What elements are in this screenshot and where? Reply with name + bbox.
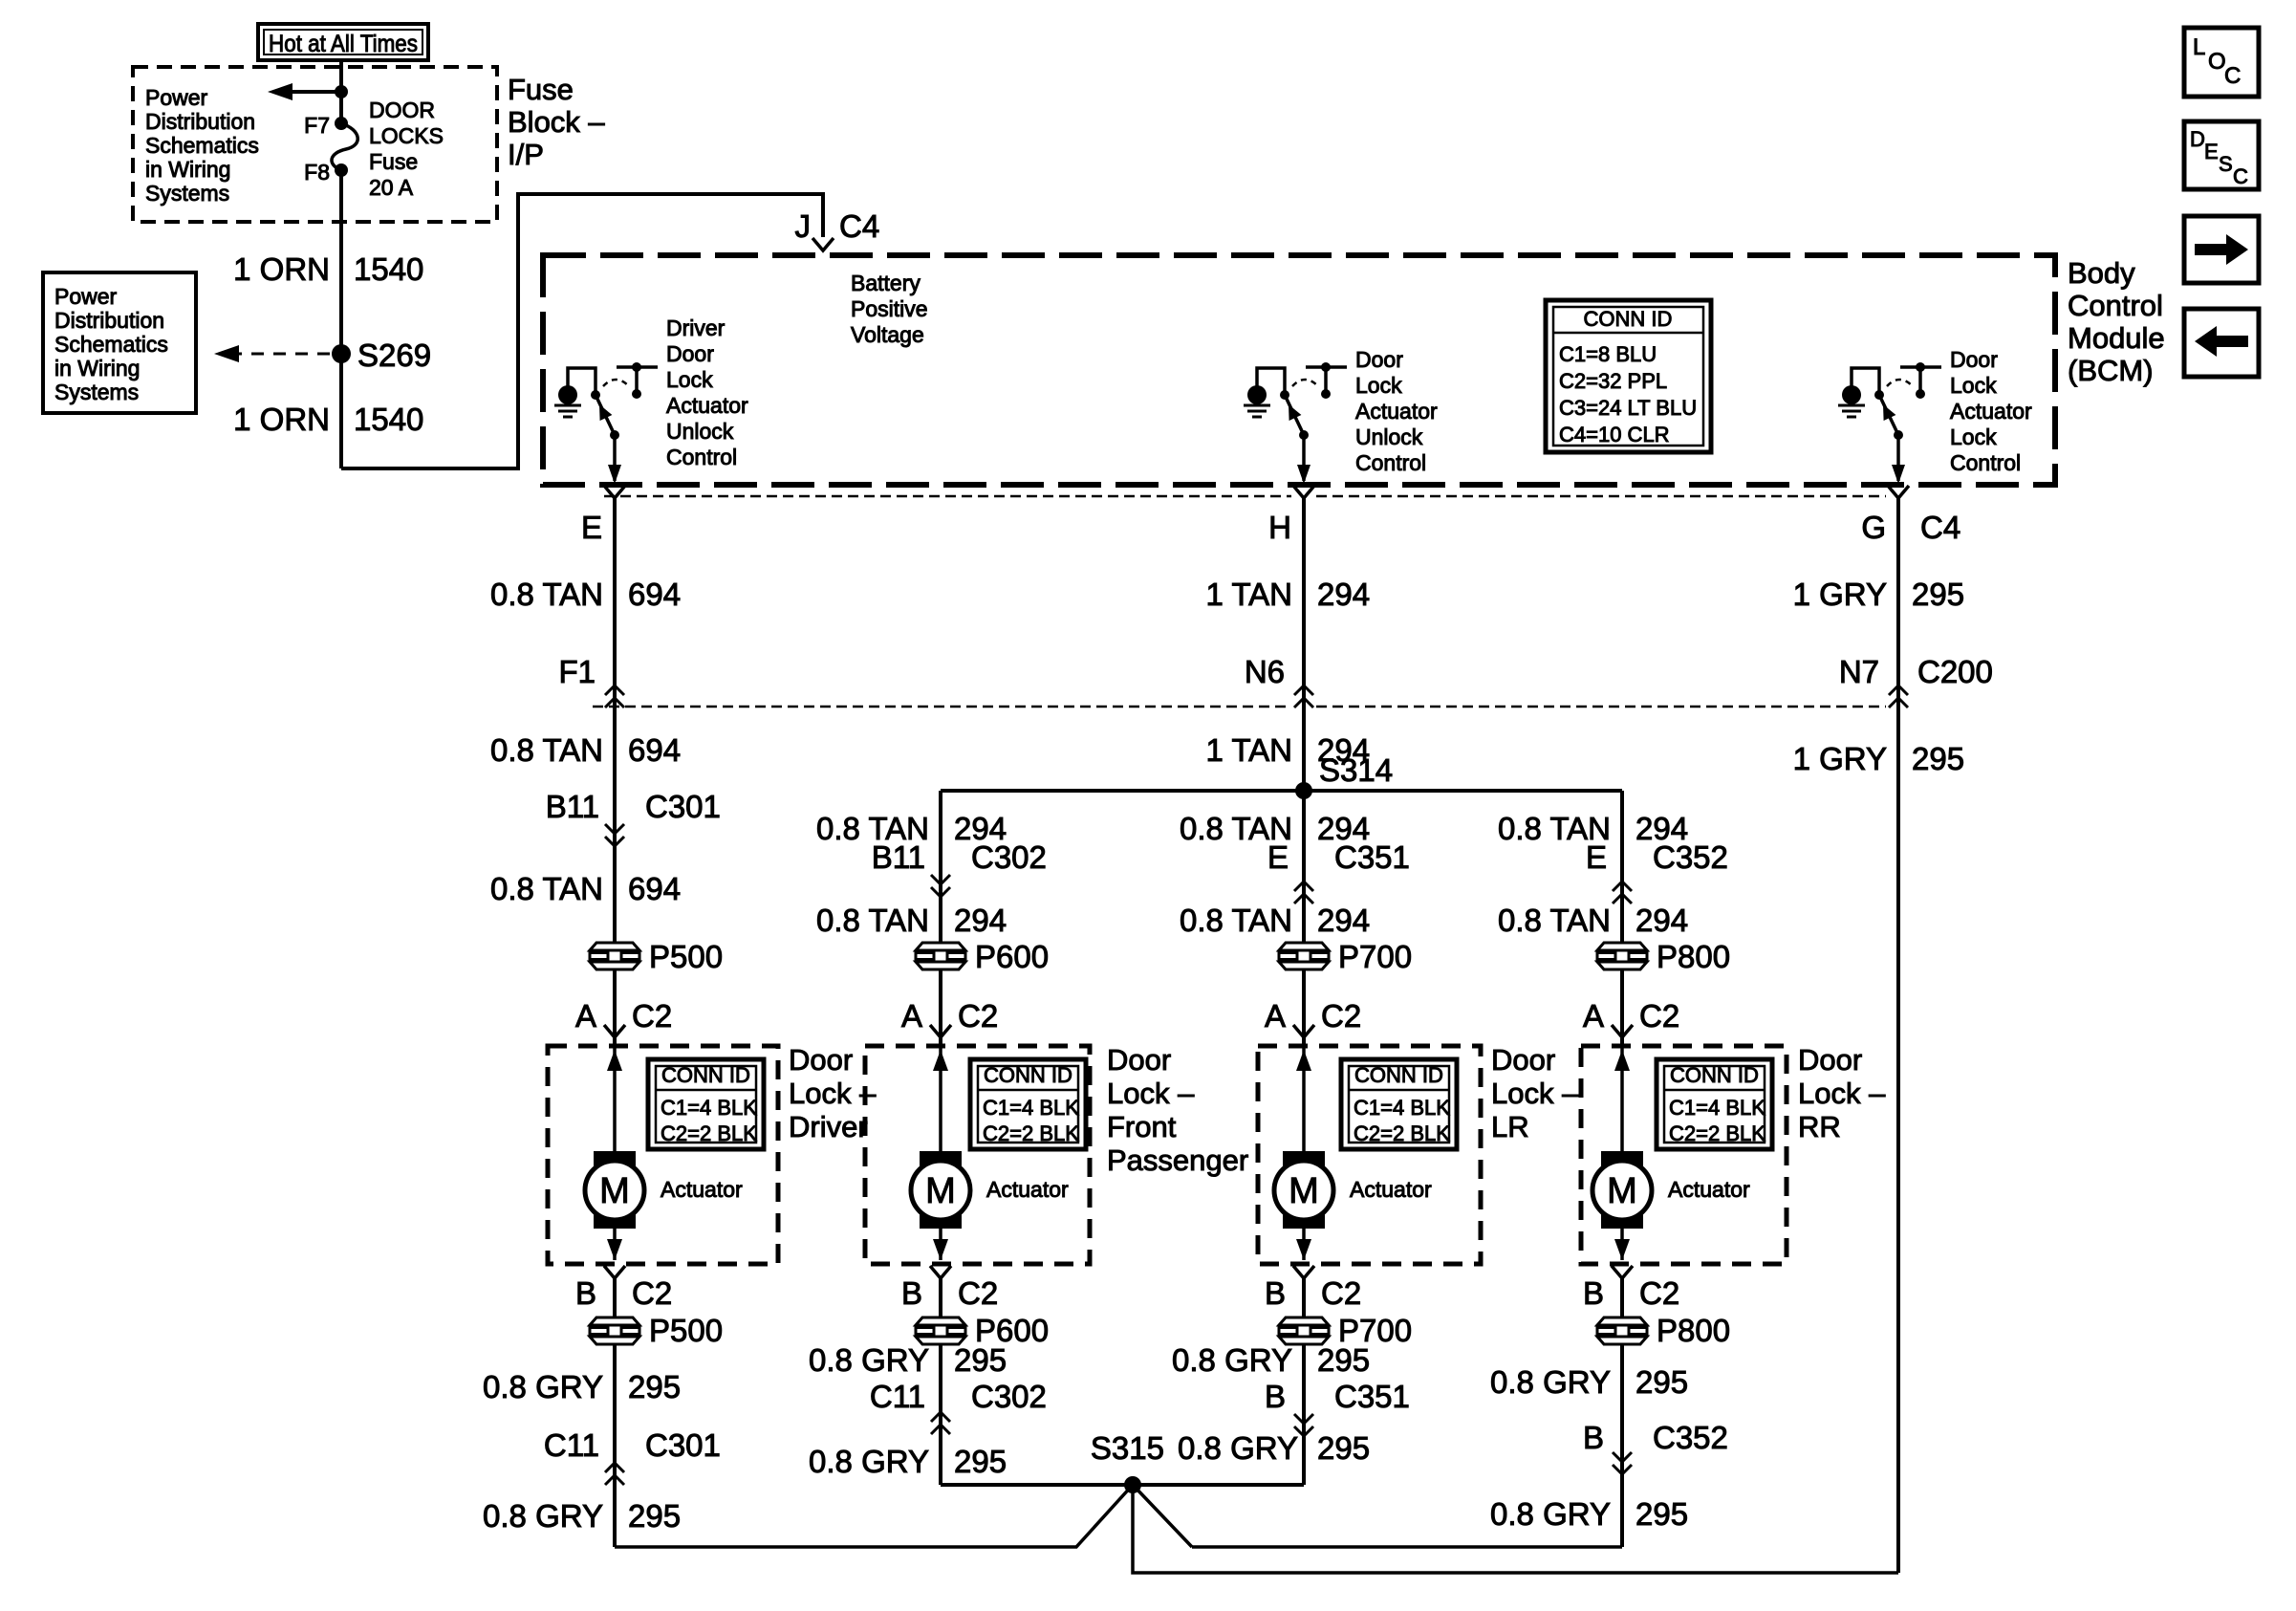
svg-text:Power: Power (54, 284, 118, 309)
svg-text:Passenger: Passenger (1107, 1143, 1248, 1177)
wire out of actuator (613, 1229, 617, 1260)
switch unlock output wire (1302, 435, 1306, 481)
wire into actuator (613, 1046, 617, 1151)
svg-text:C4: C4 (1920, 510, 1960, 545)
pass-through P700 (return) (1278, 1317, 1330, 1345)
svg-text:Lock: Lock (1355, 373, 1402, 398)
svg-text:C352: C352 (1653, 1420, 1728, 1455)
pass-through P700 (1278, 942, 1330, 970)
pass-through P500 (return) (589, 1317, 640, 1345)
svg-text:C2: C2 (1321, 1275, 1361, 1311)
svg-text:Hot at All Times: Hot at All Times (269, 31, 418, 57)
svg-text:C2=32 PPL: C2=32 PPL (1559, 369, 1667, 393)
svg-text:B: B (901, 1275, 922, 1311)
svg-text:C2=2 BLK: C2=2 BLK (661, 1121, 757, 1145)
svg-text:295: 295 (1317, 1430, 1370, 1466)
button back (left arrow) (2184, 309, 2259, 377)
svg-text:C1=8 BLU: C1=8 BLU (1559, 342, 1657, 366)
svg-text:B11: B11 (546, 789, 599, 824)
svg-text:N7: N7 (1839, 654, 1879, 689)
pin G of C4 (1888, 486, 1909, 498)
svg-text:694: 694 (628, 732, 681, 768)
svg-text:Unlock: Unlock (1355, 425, 1423, 449)
button LOC (2184, 28, 2259, 97)
pass-through P800 (return) (1596, 1317, 1648, 1345)
switch unlock fixed contact (1306, 365, 1347, 369)
svg-text:Actuator: Actuator (1350, 1177, 1432, 1202)
splice S269 (332, 344, 351, 363)
svg-text:1 TAN: 1 TAN (1206, 732, 1292, 768)
svg-text:Lock: Lock (1950, 373, 1997, 398)
connector C200 boundary (dashed) (593, 706, 1291, 708)
svg-text:H: H (1268, 510, 1291, 545)
wire: BCM H to S314 and LR door (1302, 498, 1306, 1045)
svg-text:J: J (795, 208, 812, 244)
svg-text:I/P: I/P (508, 138, 544, 171)
svg-text:C4: C4 (839, 208, 879, 244)
pass-through P800 (1596, 942, 1648, 970)
svg-text:A: A (1583, 998, 1604, 1034)
svg-text:1540: 1540 (354, 251, 423, 287)
svg-text:C2: C2 (958, 998, 998, 1034)
motor M actuator front passenger (920, 1151, 962, 1229)
svg-text:in Wiring: in Wiring (145, 157, 230, 182)
wire: branch to front passenger door (939, 791, 942, 1045)
svg-text:1 GRY: 1 GRY (1793, 741, 1887, 776)
switch unlock movable arm (1285, 395, 1304, 435)
svg-text:694: 694 (628, 871, 681, 906)
svg-text:Door: Door (1107, 1043, 1171, 1077)
wire: driver door return (613, 1278, 617, 1547)
switch lock movable arm (1879, 395, 1898, 435)
svg-text:294: 294 (954, 903, 1007, 938)
switch driver unlock wire ground to pivot (568, 368, 596, 391)
svg-text:294: 294 (1317, 577, 1370, 612)
svg-text:Power: Power (145, 85, 208, 110)
button DESC (2184, 121, 2259, 189)
svg-text:1 TAN: 1 TAN (1206, 577, 1292, 612)
svg-text:Lock: Lock (1950, 425, 1997, 449)
svg-text:C351: C351 (1334, 1379, 1410, 1414)
svg-text:295: 295 (628, 1498, 681, 1534)
switch lock fixed contact (1900, 365, 1941, 369)
svg-text:B: B (1583, 1420, 1604, 1455)
svg-text:0.8 TAN: 0.8 TAN (1180, 903, 1292, 938)
svg-text:Distribution: Distribution (54, 308, 164, 333)
svg-text:M: M (599, 1171, 630, 1211)
svg-text:G: G (1861, 510, 1886, 545)
svg-text:294: 294 (1317, 903, 1370, 938)
svg-text:0.8 GRY: 0.8 GRY (1178, 1430, 1298, 1466)
svg-text:0.8 GRY: 0.8 GRY (1490, 1364, 1611, 1400)
svg-text:295: 295 (1912, 741, 1964, 776)
svg-text:CONN ID: CONN ID (1584, 307, 1673, 331)
svg-text:B: B (1583, 1275, 1604, 1311)
svg-text:C301: C301 (645, 789, 721, 824)
wire: RR return to S315 (1133, 1485, 1192, 1547)
svg-text:P600: P600 (975, 939, 1049, 974)
svg-text:B: B (1265, 1379, 1286, 1414)
svg-text:Door: Door (789, 1043, 853, 1077)
svg-text:C2: C2 (1321, 998, 1361, 1034)
svg-text:P700: P700 (1338, 939, 1412, 974)
switch driver unlock output wire (613, 435, 617, 481)
switch driver unlock ground (558, 385, 577, 404)
svg-text:Control: Control (1355, 450, 1426, 475)
svg-text:694: 694 (628, 577, 681, 612)
svg-text:Fuse: Fuse (508, 73, 574, 106)
switch driver unlock travel arc (603, 380, 629, 386)
svg-text:20 A: 20 A (369, 175, 414, 200)
svg-text:Schematics: Schematics (145, 133, 259, 158)
CONN ID table LR (1341, 1059, 1457, 1149)
svg-text:Actuator: Actuator (1355, 399, 1438, 424)
splice S315 bus (941, 1483, 1304, 1487)
wire: RR door return (1620, 1278, 1624, 1547)
svg-text:C2=2 BLK: C2=2 BLK (1354, 1121, 1450, 1145)
svg-text:C1=4 BLK: C1=4 BLK (1669, 1096, 1765, 1120)
svg-text:Control: Control (2068, 289, 2163, 322)
motor M actuator driver (594, 1151, 636, 1229)
CONN ID table front passenger (970, 1059, 1086, 1149)
switch lock travel arc (1887, 380, 1913, 386)
svg-text:C11: C11 (870, 1379, 925, 1414)
door lock actuator box LR (1258, 1046, 1481, 1264)
svg-text:Block –: Block – (508, 105, 605, 139)
svg-text:C351: C351 (1334, 839, 1410, 875)
switch unlock wire ground to pivot (1257, 368, 1285, 391)
svg-text:E: E (1267, 839, 1289, 875)
svg-text:0.8 TAN: 0.8 TAN (490, 577, 603, 612)
svg-text:Positive: Positive (851, 296, 928, 321)
pin B / connector C2 (1612, 1266, 1633, 1278)
svg-text:Control: Control (1950, 450, 2021, 475)
svg-text:O: O (2208, 49, 2226, 75)
svg-text:Actuator: Actuator (986, 1177, 1069, 1202)
svg-text:C2: C2 (632, 998, 672, 1034)
svg-text:Body: Body (2068, 256, 2135, 290)
svg-text:C11: C11 (544, 1427, 599, 1463)
svg-text:F1: F1 (558, 654, 596, 689)
motor M actuator LR (1283, 1151, 1325, 1229)
svg-text:295: 295 (1635, 1364, 1688, 1400)
button next (right arrow) (2184, 216, 2259, 283)
svg-text:294: 294 (1317, 732, 1370, 768)
svg-text:Driver: Driver (666, 316, 726, 340)
door lock actuator box front passenger (865, 1046, 1090, 1264)
svg-text:Lock –: Lock – (1798, 1077, 1886, 1110)
splice S314 and branch bus (941, 789, 1622, 793)
svg-text:Actuator: Actuator (661, 1177, 743, 1202)
wire into actuator (939, 1046, 942, 1151)
wire: S314 branch to RR door (1620, 791, 1624, 1045)
svg-text:S269: S269 (357, 337, 431, 373)
svg-text:F7: F7 (304, 113, 330, 138)
svg-text:Door: Door (1798, 1043, 1862, 1077)
motor M actuator RR (1601, 1151, 1643, 1229)
BCM CONN ID table (1546, 300, 1711, 452)
svg-text:Voltage: Voltage (851, 322, 924, 347)
svg-text:C: C (2233, 164, 2248, 188)
wire out of actuator (1302, 1229, 1306, 1260)
svg-text:C2=2 BLK: C2=2 BLK (1669, 1121, 1765, 1145)
svg-text:C2: C2 (632, 1275, 672, 1311)
svg-text:A: A (1265, 998, 1286, 1034)
svg-text:C200: C200 (1917, 654, 1993, 689)
svg-text:Actuator: Actuator (666, 393, 748, 418)
svg-text:1 ORN: 1 ORN (233, 402, 330, 437)
svg-text:Lock –: Lock – (1107, 1077, 1195, 1110)
svg-text:Distribution: Distribution (145, 109, 255, 134)
svg-text:S: S (2219, 152, 2233, 176)
pin B / connector C2 (930, 1266, 951, 1278)
svg-text:0.8 GRY: 0.8 GRY (483, 1498, 603, 1534)
pass-through P600 (return) (915, 1317, 966, 1345)
svg-text:0.8 TAN: 0.8 TAN (1498, 903, 1611, 938)
svg-text:295: 295 (1912, 577, 1964, 612)
svg-text:C: C (2224, 63, 2241, 89)
svg-text:1 GRY: 1 GRY (1793, 577, 1887, 612)
svg-text:0.8 GRY: 0.8 GRY (809, 1342, 929, 1378)
svg-text:RR: RR (1798, 1110, 1841, 1143)
reference box: Power Distribution Schematics in Wiring Systems (43, 272, 196, 413)
Fuse Block - I/P dashed box (133, 67, 497, 222)
svg-text:Control: Control (666, 445, 737, 469)
pin B / connector C2 (1293, 1266, 1314, 1278)
svg-text:P500: P500 (649, 1313, 723, 1348)
svg-text:Door: Door (1950, 347, 1998, 372)
wire: front passenger return (939, 1278, 942, 1485)
svg-text:Systems: Systems (145, 181, 229, 206)
svg-text:E: E (2204, 140, 2219, 163)
switch lock ground (1842, 385, 1861, 404)
pin E of C4 (604, 486, 625, 498)
switch unlock ground (1247, 385, 1267, 404)
svg-text:C302: C302 (971, 839, 1047, 875)
svg-text:P800: P800 (1657, 1313, 1730, 1348)
svg-text:in Wiring: in Wiring (54, 356, 140, 381)
svg-text:295: 295 (954, 1444, 1007, 1479)
svg-text:D: D (2190, 127, 2205, 151)
pin B / connector C2 (604, 1266, 625, 1278)
svg-text:Systems: Systems (54, 380, 139, 404)
svg-text:C4=10 CLR: C4=10 CLR (1559, 423, 1670, 446)
pass-through P600 (915, 942, 966, 970)
CONN ID table RR (1657, 1059, 1772, 1149)
svg-text:B: B (575, 1275, 596, 1311)
svg-text:Lock: Lock (666, 367, 713, 392)
svg-text:Door: Door (1355, 347, 1403, 372)
CONN ID table driver (648, 1059, 764, 1149)
wire: driver return to S315 (615, 1485, 1133, 1547)
svg-text:M: M (925, 1171, 956, 1211)
door lock actuator box RR (1581, 1046, 1787, 1264)
svg-text:B: B (1265, 1275, 1286, 1311)
svg-text:1 ORN: 1 ORN (233, 251, 330, 287)
svg-text:CONN ID: CONN ID (661, 1063, 750, 1087)
svg-text:CONN ID: CONN ID (1354, 1063, 1443, 1087)
switch lock output wire (1896, 435, 1900, 481)
wire: BCM E to driver door (0.8 TAN 694) (613, 498, 617, 1045)
svg-text:E: E (1586, 839, 1607, 875)
svg-text:0.8 TAN: 0.8 TAN (490, 871, 603, 906)
svg-text:0.8 GRY: 0.8 GRY (809, 1444, 929, 1479)
wire: feed routed to BCM pin J (341, 194, 823, 468)
svg-text:0.8 GRY: 0.8 GRY (1172, 1342, 1292, 1378)
svg-text:L: L (2193, 34, 2205, 60)
wire: fuse output down to S269 (339, 170, 343, 468)
wire: battery feed from Hot at All Times into fuse (339, 60, 343, 123)
svg-text:CONN ID: CONN ID (1670, 1063, 1759, 1087)
svg-text:294: 294 (1635, 903, 1688, 938)
switch driver unlock fixed contact (617, 365, 658, 369)
switch driver unlock movable arm (596, 395, 615, 435)
svg-text:M: M (1289, 1171, 1319, 1211)
svg-text:C301: C301 (645, 1427, 721, 1463)
Body Control Module (BCM) dashed box (543, 255, 2055, 485)
wire into actuator (1302, 1046, 1306, 1151)
svg-text:Door: Door (1491, 1043, 1555, 1077)
svg-text:Actuator: Actuator (1668, 1177, 1750, 1202)
svg-text:B11: B11 (872, 839, 925, 875)
fuse F7/F8 DOOR LOCKS Fuse 20 A (335, 117, 348, 130)
wire out of actuator (1620, 1229, 1624, 1260)
power feed label box: Hot at All Times (258, 24, 428, 60)
pass-through P500 (589, 942, 640, 970)
svg-text:Actuator: Actuator (1950, 399, 2032, 424)
svg-text:0.8 TAN: 0.8 TAN (490, 732, 603, 768)
switch lock wire ground to pivot (1852, 368, 1879, 391)
svg-text:C2=2 BLK: C2=2 BLK (983, 1121, 1079, 1145)
svg-text:Front: Front (1107, 1110, 1177, 1143)
svg-text:LR: LR (1491, 1110, 1529, 1143)
svg-text:295: 295 (1635, 1496, 1688, 1532)
svg-text:0.8 GRY: 0.8 GRY (483, 1369, 603, 1404)
svg-text:A: A (575, 998, 596, 1034)
svg-text:C2: C2 (958, 1275, 998, 1311)
svg-text:C1=4 BLK: C1=4 BLK (661, 1096, 757, 1120)
svg-text:Module: Module (2068, 321, 2165, 355)
svg-text:Door: Door (666, 341, 714, 366)
switch unlock travel arc (1292, 380, 1318, 386)
svg-text:P500: P500 (649, 939, 723, 974)
svg-text:S315: S315 (1091, 1430, 1164, 1466)
arrow to Power Distribution Schematics (in fuse box) (279, 90, 341, 94)
pin H of C4 (1293, 486, 1314, 498)
svg-text:295: 295 (1317, 1342, 1370, 1378)
svg-text:(BCM): (BCM) (2068, 354, 2154, 387)
wire into actuator (1620, 1046, 1624, 1151)
svg-text:Lock –: Lock – (1491, 1077, 1579, 1110)
svg-text:C3=24 LT BLU: C3=24 LT BLU (1559, 396, 1697, 420)
door lock actuator box driver (548, 1046, 778, 1264)
svg-text:Schematics: Schematics (54, 332, 168, 357)
connector C4 boundary (dashed) (604, 495, 1291, 498)
svg-text:C2: C2 (1639, 1275, 1679, 1311)
svg-text:C302: C302 (971, 1379, 1047, 1414)
svg-text:N6: N6 (1245, 654, 1285, 689)
svg-text:Driver: Driver (789, 1110, 868, 1143)
svg-text:295: 295 (954, 1342, 1007, 1378)
svg-text:M: M (1607, 1171, 1637, 1211)
svg-text:P800: P800 (1657, 939, 1730, 974)
svg-text:C2: C2 (1639, 998, 1679, 1034)
dashed reference arrow from S269 to Power Distribution (229, 353, 332, 356)
svg-text:C1=4 BLK: C1=4 BLK (983, 1096, 1079, 1120)
svg-text:F8: F8 (304, 160, 330, 185)
svg-text:0.8 GRY: 0.8 GRY (1490, 1496, 1611, 1532)
svg-text:1540: 1540 (354, 402, 423, 437)
svg-text:Unlock: Unlock (666, 419, 734, 444)
svg-text:Battery: Battery (851, 271, 921, 295)
wire out of actuator (939, 1229, 942, 1260)
svg-text:CONN ID: CONN ID (984, 1063, 1072, 1087)
svg-text:DOOR: DOOR (369, 98, 435, 122)
wire: G ground wire to S315 (1133, 1485, 1898, 1573)
wire: LR door return (1302, 1278, 1306, 1485)
svg-text:E: E (581, 510, 602, 545)
svg-text:C1=4 BLK: C1=4 BLK (1354, 1096, 1450, 1120)
svg-text:295: 295 (628, 1369, 681, 1404)
svg-text:C352: C352 (1653, 839, 1728, 875)
svg-text:LOCKS: LOCKS (369, 123, 444, 148)
wire: BCM G ground return (1 GRY 295) (1896, 498, 1900, 1573)
svg-text:0.8 TAN: 0.8 TAN (816, 903, 929, 938)
svg-text:Fuse: Fuse (369, 149, 418, 174)
svg-text:A: A (901, 998, 922, 1034)
